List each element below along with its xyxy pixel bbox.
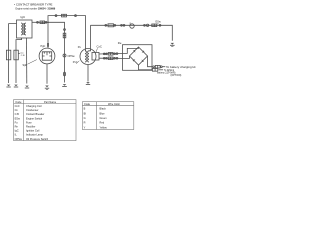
diode 2 [142,50,145,52]
wire coil left pin to condenser branch [9,24,17,83]
IgC secondary winding [25,23,27,35]
ignition coil IgC box [17,20,33,38]
engine switch ESw label [156,21,161,24]
svg-text:Fuse: Fuse [26,120,32,124]
IgC core [22,23,25,35]
connector ring [64,29,66,31]
connector ring [114,57,116,59]
ground [62,86,67,88]
svg-text:Red: Red [100,121,105,125]
connector ring [161,66,163,68]
ground [45,87,49,89]
wire input to left corner [123,56,130,58]
connector ring [159,24,161,26]
svg-text:CxC: CxC [15,104,20,108]
svg-text:• CONTACT BREAKER TYPE: • CONTACT BREAKER TYPE [14,3,53,7]
parts table [14,100,76,141]
svg-text:Indicator Lamp: Indicator Lamp [26,133,43,137]
svg-text:Wire Color: Wire Color [108,102,120,106]
connector ring [103,53,105,55]
diode 4 [133,59,136,61]
svg-text:OPSw: OPSw [68,55,75,58]
svg-text:Code: Code [84,102,91,106]
svg-text:PgC: PgC [41,45,46,48]
ground [6,86,10,88]
spark plug [39,48,55,64]
svg-text:PxC: PxC [73,61,78,64]
svg-text:B: B [84,107,86,111]
indicator lamp IL [130,24,134,28]
ground [14,86,18,88]
plug connector lower [152,68,157,71]
svg-text:Ignition Coil: Ignition Coil [26,129,40,133]
caption line 2 [16,7,56,10]
rectifier box [123,45,153,71]
wire junction down to spark plug [47,22,49,48]
connector ring [114,53,116,55]
svg-text:Rectifier: Rectifier [26,125,35,129]
svg-text:Code: Code [15,100,22,104]
ground [170,44,175,46]
svg-text:Bl: Bl [84,111,87,115]
plug connector [40,21,45,24]
connector ring [121,24,123,26]
ground [86,84,90,86]
connector ring [45,21,47,23]
wire to battery text [162,66,165,68]
fuse Fu [108,24,114,27]
svg-text:Cx: Cx [15,108,19,112]
svg-text:Yellow: Yellow [100,125,107,129]
svg-text:SpP: SpP [23,64,28,67]
connector ring [37,21,39,23]
plug connector [155,65,160,68]
plug cap [47,43,49,47]
connector ring [123,24,125,26]
IgC primary winding [21,23,23,35]
spark plug label SpP [23,64,28,67]
svg-text:Oil Pressure Switch: Oil Pressure Switch [26,137,49,141]
svg-text:ESw: ESw [15,116,20,120]
connector ring [105,24,107,26]
C.B label [21,53,25,58]
condenser Cx [6,50,10,60]
wire junction up and top run to magneto [48,16,86,51]
svg-text:Green: Green [100,116,108,120]
contact breaker C.B [14,50,18,60]
svg-text:C.B: C.B [21,55,25,57]
svg-text:CxC: CxC [97,45,102,49]
connector ring [106,57,108,59]
connector ring [106,53,108,55]
connector ring [55,15,57,17]
plug connector vertical [63,33,66,38]
svg-text:Engine Switch: Engine Switch [26,116,43,120]
wire coil secondary to junction [32,21,48,23]
svg-text:C.B: C.B [15,112,20,116]
svg-text:OPSw: OPSw [15,137,22,141]
wire input to top corner [123,47,139,53]
svg-text:Blue: Blue [100,111,106,115]
svg-text:Re: Re [15,125,19,129]
wire coil bottom pin to breaker branch [16,38,22,83]
svg-text:To battery charging kit: To battery charging kit [166,66,196,69]
plug connector [108,53,113,56]
wire CxC upper to rectifier [99,52,123,55]
engine switch plug [152,24,157,27]
connector ring [114,24,116,26]
svg-text:Contact Breaker: Contact Breaker [26,112,45,116]
magneto lamp winding [88,51,89,62]
bridge diamond [130,47,148,65]
magneto exciter winding [85,51,86,62]
charging coil CxC box [92,52,99,60]
wire CxC lower to rectifier [99,57,123,59]
svg-text:G: G [84,116,86,120]
plug connector [108,57,113,60]
connector oval [63,72,65,76]
magneto flywheel [80,49,96,65]
caption line 1 [14,3,53,7]
ground [25,87,29,89]
wire coil bottom pin 2 to ground [26,38,28,84]
node junction [47,22,49,24]
svg-text:IgC: IgC [21,15,27,19]
rectifier Re label [118,41,122,45]
wire magneto to ground [87,65,89,82]
indicator lamp IL label [130,22,133,25]
wire color table [82,102,133,130]
svg-text:Part Name: Part Name [44,100,57,104]
connector ring [144,24,146,26]
connector ring [116,53,118,55]
svg-text:(OPTION): (OPTION) [171,74,182,77]
wire lamp run [91,25,173,41]
svg-text:Pu: Pu [78,46,82,49]
connector ring [153,66,155,68]
svg-text:Condenser: Condenser [26,108,39,112]
svg-text:IL: IL [15,133,18,137]
ignition coil IgC label [21,15,27,19]
svg-text:Y: Y [84,125,86,129]
wire spark plug to ground [46,64,48,84]
plug cap label PgC [41,45,46,48]
magneto label PuC [78,46,82,49]
connector ring [103,57,105,59]
svg-text:Re: Re [118,41,122,45]
svg-text:IgC: IgC [15,129,19,133]
diode 3 [142,59,144,62]
wire bottom corner output [139,65,153,70]
wire junction to engine-stop branch [48,22,65,82]
oil pressure switch OPSw [63,54,66,57]
charging coil CxC label [97,45,102,49]
plug connector [62,14,67,17]
diode 1 [133,50,135,53]
svg-text:Engine serial number 100004 -: Engine serial number 100004 - 319999 [16,7,56,10]
svg-text:Charging Coil: Charging Coil [26,104,42,108]
svg-text:R: R [84,121,86,125]
svg-text:Fu: Fu [15,120,19,124]
connector socket [146,24,148,26]
connector ring [116,57,118,59]
svg-text:Black: Black [100,107,107,111]
wire lamp coil up to corner [89,25,91,51]
connector ring [75,15,77,17]
wire right corner output [148,56,153,67]
magneto label PxC [73,61,78,64]
